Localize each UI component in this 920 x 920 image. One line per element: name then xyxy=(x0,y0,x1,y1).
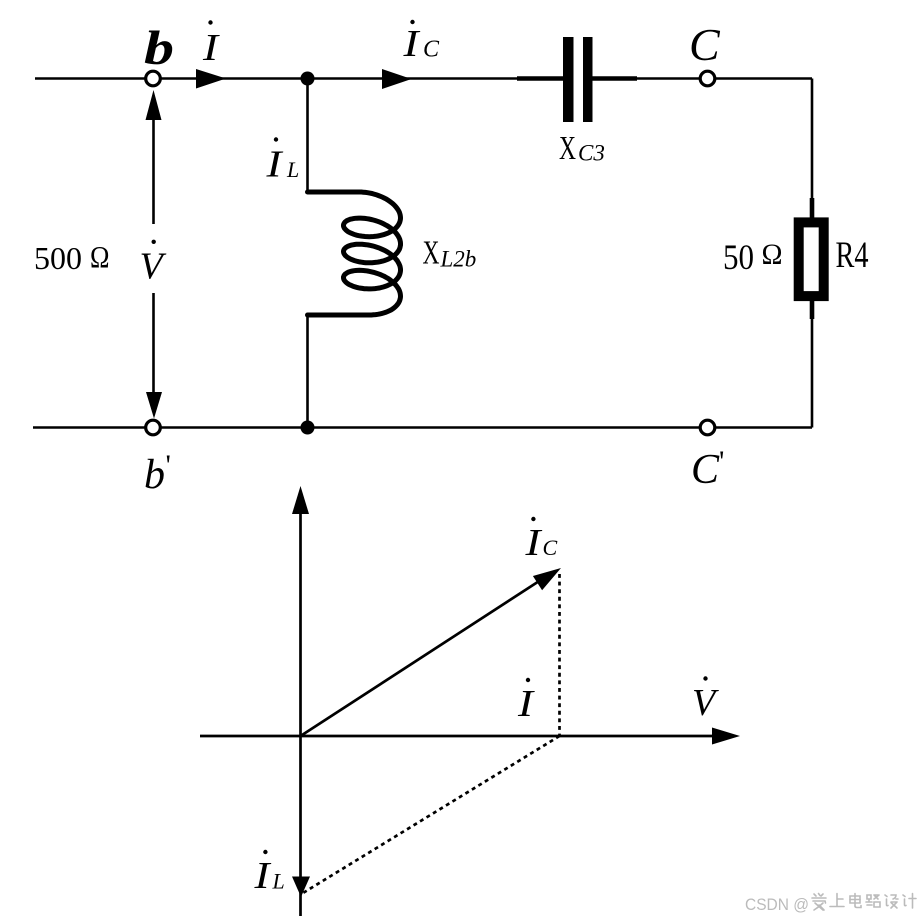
svg-text:C: C xyxy=(689,19,721,70)
svg-text:L: L xyxy=(272,869,285,894)
svg-text:b: b xyxy=(144,452,165,498)
svg-text:50: 50 xyxy=(723,237,754,277)
svg-text:b: b xyxy=(144,22,174,75)
svg-text:500: 500 xyxy=(34,240,82,276)
svg-text:Ω: Ω xyxy=(762,238,783,271)
svg-text:C: C xyxy=(423,37,440,63)
svg-text:X: X xyxy=(559,130,576,167)
svg-text:C: C xyxy=(543,535,558,560)
svg-text:I: I xyxy=(202,27,221,69)
svg-text:CSDN @: CSDN @ xyxy=(745,895,809,914)
svg-text:': ' xyxy=(166,449,171,482)
svg-text:Ω: Ω xyxy=(90,239,110,274)
svg-text:R4: R4 xyxy=(836,235,869,276)
svg-text:L2b: L2b xyxy=(440,247,477,272)
svg-text:I: I xyxy=(253,855,272,897)
svg-text:': ' xyxy=(719,445,724,478)
svg-text:C: C xyxy=(691,447,720,493)
svg-text:I: I xyxy=(402,23,421,65)
svg-text:I: I xyxy=(517,683,536,725)
svg-text:I: I xyxy=(265,144,284,186)
svg-text:X: X xyxy=(423,235,440,272)
svg-text:V: V xyxy=(140,246,167,288)
svg-text:L: L xyxy=(286,157,299,182)
svg-text:C3: C3 xyxy=(578,141,605,166)
svg-text:V: V xyxy=(692,682,719,724)
svg-text:I: I xyxy=(524,522,543,564)
